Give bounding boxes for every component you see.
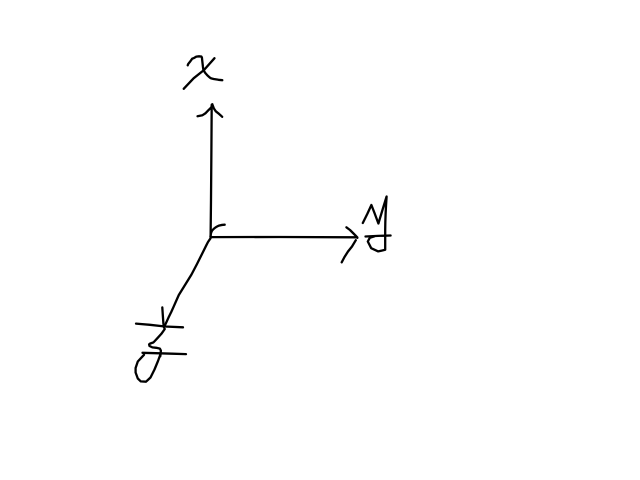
x-axis arrowhead right flank <box>212 104 222 117</box>
label x stroke 2 (slash) <box>184 58 215 89</box>
label z descender loop <box>136 354 161 382</box>
label y main stroke <box>363 197 387 252</box>
y-axis arrowhead upper stroke <box>346 227 357 238</box>
z-axis arrowhead left flank <box>162 307 164 327</box>
x-axis arrowhead left flank <box>198 104 213 116</box>
label z squiggle <box>149 329 165 356</box>
label x stroke 1 <box>188 56 223 80</box>
y-axis arrowhead lower stroke <box>342 240 356 262</box>
z-axis arrowhead crossbar <box>136 324 183 328</box>
x-axis vertical line <box>211 105 212 237</box>
z-axis diagonal line <box>164 238 210 326</box>
origin hook flourish <box>210 225 224 237</box>
label y crossbar <box>366 236 391 237</box>
y-axis horizontal line <box>212 236 357 239</box>
label z middle bar <box>143 353 187 354</box>
